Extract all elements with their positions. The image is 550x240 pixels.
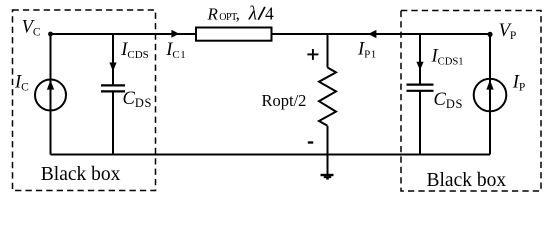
black box (left) dashed boundary (13, 10, 156, 191)
svg-text:Black box: Black box (41, 164, 121, 185)
svg-text:IP1: IP1 (357, 39, 377, 60)
wire: top rail right segment (Ropt to Vp node) (272, 33, 491, 35)
wire: top rail left segment (Vc node to Ropt) (51, 33, 197, 35)
current source IC arrow (up) (47, 80, 54, 90)
polarity + label (307, 53, 318, 55)
svg-text:,: , (236, 4, 240, 23)
svg-text:OPT: OPT (219, 12, 237, 23)
capacitor CDS (right) plates (407, 83, 434, 85)
wire: left source branch (Vc down to bottom rail) (50, 34, 52, 155)
svg-text:ICDS1: ICDS1 (431, 47, 464, 68)
current arrow ICDS1 (down) (416, 62, 423, 71)
svg-text:R: R (207, 4, 219, 23)
wire: left capacitor branch lower (112, 91, 114, 154)
svg-text:ICDS: ICDS (120, 40, 149, 61)
svg-text:CDS: CDS (434, 90, 464, 111)
black box (right) dashed boundary (401, 11, 541, 192)
wire: middle branch upper (top rail to Ropt/2) (327, 34, 329, 68)
svg-text:IC1: IC1 (165, 40, 186, 61)
current arrow IP1 (left, on top rail) (368, 30, 376, 38)
node VP (junction dot) (487, 32, 492, 37)
wire: left capacitor branch upper (112, 34, 114, 85)
svg-text:VP: VP (499, 21, 517, 42)
polarity - label (308, 141, 313, 143)
wire: bottom rail (51, 154, 491, 156)
wire: right source branch (Vp down to bottom rail) (489, 34, 491, 155)
wire: right capacitor branch upper (419, 34, 421, 84)
current source IP arrow (up) (486, 80, 493, 90)
current source IP (circle) (474, 79, 507, 112)
svg-text:IP: IP (512, 73, 526, 94)
current source IC (circle) (35, 80, 66, 111)
svg-text:IC: IC (14, 73, 29, 94)
svg-text:λ: λ (248, 3, 257, 24)
resistor ROPT quarter-wave line (box) (196, 28, 272, 41)
current arrow IC1 (right, on top rail) (171, 30, 179, 38)
svg-text:CDS: CDS (123, 89, 153, 110)
svg-text:Ropt/2: Ropt/2 (262, 91, 307, 110)
ground (321, 174, 334, 176)
node VC (junction dot) (48, 32, 53, 37)
svg-text:4: 4 (265, 3, 274, 23)
wire: middle branch lower (Ropt/2 through bottom rail to ground) (327, 126, 329, 175)
wire: right capacitor branch lower (419, 91, 421, 155)
svg-text:Black box: Black box (427, 170, 507, 191)
current arrow ICDS (down) (109, 63, 116, 72)
svg-text:VC: VC (22, 17, 41, 38)
capacitor CDS (left) plates (101, 84, 125, 86)
resistor Ropt/2 (zigzag) (319, 68, 336, 126)
